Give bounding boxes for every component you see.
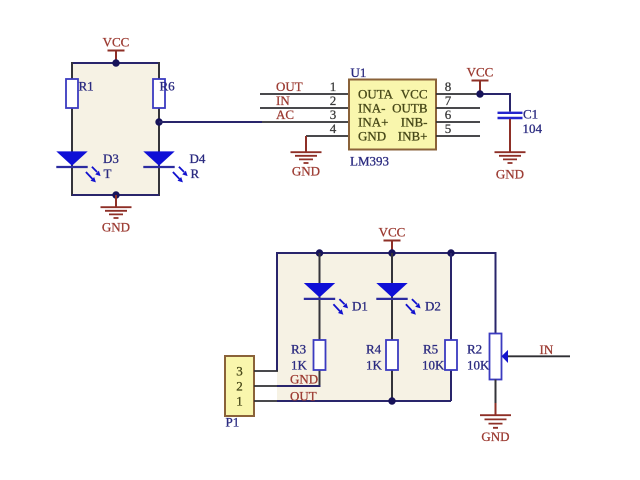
- svg-text:R4: R4: [366, 342, 382, 357]
- svg-text:R6: R6: [160, 79, 176, 94]
- svg-text:3: 3: [236, 364, 243, 379]
- pin 3 of U1: [262, 121, 349, 123]
- pin number 2: [330, 93, 337, 108]
- svg-text:R5: R5: [423, 342, 438, 357]
- wire: top rail of left circuit: [72, 62, 159, 64]
- value 10K: [467, 358, 490, 373]
- resistor R3: [314, 340, 326, 370]
- net label OUT: [290, 389, 317, 404]
- ground symbol (R2): [480, 403, 511, 428]
- svg-text:IN: IN: [540, 342, 554, 357]
- net label IN: [276, 93, 290, 108]
- svg-text:1: 1: [330, 79, 337, 94]
- label R1: [79, 79, 94, 94]
- wire: top rail of bottom circuit: [277, 252, 496, 254]
- svg-text:INB-: INB-: [401, 115, 428, 130]
- pin 3 of P1: [254, 370, 278, 372]
- label GND (R2): [481, 429, 509, 444]
- ground symbol (left circuit): [101, 195, 132, 218]
- svg-text:C1: C1: [523, 107, 538, 122]
- svg-text:INA-: INA-: [358, 101, 385, 116]
- svg-text:R: R: [191, 166, 200, 181]
- potentiometer R2: [490, 334, 509, 380]
- label P1: [226, 415, 240, 430]
- label T: [104, 166, 112, 181]
- pin name OUTA: [358, 87, 394, 102]
- power symbol VCC (bottom circuit): [379, 225, 406, 254]
- connector P1 body: [225, 356, 254, 416]
- junction dot R5 branch: [447, 249, 454, 256]
- LED D4: [143, 151, 187, 182]
- junction dot at bottom rail: [112, 191, 119, 198]
- wire: P1 pin2 to R3 (GND net): [277, 385, 321, 387]
- label U1: [351, 65, 367, 80]
- label D4: [190, 151, 206, 166]
- label GND (C1): [496, 167, 524, 182]
- svg-text:R3: R3: [291, 342, 306, 357]
- label R5: [423, 342, 438, 357]
- svg-text:P1: P1: [226, 415, 240, 430]
- pin name OUTB: [392, 101, 428, 116]
- svg-text:OUTB: OUTB: [392, 101, 428, 116]
- svg-text:INA+: INA+: [358, 115, 388, 130]
- pin 6 of U1: [436, 121, 480, 123]
- svg-text:R2: R2: [467, 342, 482, 357]
- power symbol VCC (at U1 pin 8): [467, 65, 494, 95]
- svg-text:AC: AC: [276, 107, 294, 122]
- svg-text:5: 5: [445, 121, 452, 136]
- pin number 1: [330, 79, 337, 94]
- net label IN: [540, 342, 554, 357]
- label R6: [160, 79, 176, 94]
- pin number 3 (P1): [236, 364, 243, 379]
- svg-text:10K: 10K: [467, 358, 490, 373]
- svg-text:2: 2: [330, 93, 337, 108]
- net label OUT: [276, 79, 303, 94]
- resistor R1: [66, 79, 78, 108]
- wire: R2 bottom lead: [495, 380, 497, 405]
- label C1: [523, 107, 538, 122]
- svg-text:U1: U1: [351, 65, 367, 80]
- svg-text:10K: 10K: [422, 358, 445, 373]
- svg-text:D4: D4: [190, 151, 206, 166]
- pin name INB-: [401, 115, 428, 130]
- label GND (left circuit): [102, 220, 130, 235]
- value 1K: [291, 358, 308, 373]
- svg-text:6: 6: [445, 107, 452, 122]
- svg-text:VCC: VCC: [379, 225, 406, 240]
- svg-text:R1: R1: [79, 79, 94, 94]
- svg-text:D2: D2: [425, 299, 441, 314]
- pin 1 of U1: [260, 93, 349, 95]
- pin 1 of P1: [254, 400, 277, 402]
- svg-text:OUT: OUT: [290, 389, 317, 404]
- label R2: [467, 342, 482, 357]
- svg-text:8: 8: [445, 79, 452, 94]
- pin 5 of U1: [436, 135, 480, 137]
- net label GND: [290, 372, 318, 387]
- svg-text:GND: GND: [496, 167, 524, 182]
- enclosed-loop fill (left LED loop): [72, 63, 159, 195]
- wire: bottom rail (OUT net): [277, 400, 451, 402]
- svg-text:2: 2: [236, 379, 243, 394]
- value 10K: [422, 358, 445, 373]
- pin name VCC: [401, 87, 428, 102]
- svg-text:1: 1: [236, 394, 243, 409]
- wire: AC net from node to U1: [159, 121, 262, 123]
- wire: down to C1: [509, 93, 511, 112]
- resistor R4: [386, 340, 398, 370]
- net label AC: [276, 107, 294, 122]
- junction dot at AC node: [155, 118, 162, 125]
- svg-text:OUT: OUT: [276, 79, 303, 94]
- pin name INA+: [358, 115, 388, 130]
- wire: right vertical branch (R6/D4): [158, 62, 160, 196]
- junction dot D1 branch: [316, 249, 323, 256]
- svg-text:D1: D1: [352, 299, 368, 314]
- label D3: [103, 151, 119, 166]
- LED D3: [56, 151, 100, 182]
- junction dot VCC branch: [388, 249, 395, 256]
- pin 2 of P1: [254, 385, 277, 387]
- svg-text:4: 4: [330, 121, 337, 136]
- svg-text:VCC: VCC: [467, 65, 494, 80]
- enclosed-loop fill (bottom circuit loop): [277, 253, 451, 401]
- ground symbol (U1 pin 4): [291, 136, 322, 163]
- pin 7 of U1: [436, 107, 480, 109]
- svg-text:T: T: [104, 166, 112, 181]
- svg-text:VCC: VCC: [103, 35, 130, 50]
- svg-text:3: 3: [330, 107, 337, 122]
- wire: left vertical branch (R1/D3): [71, 62, 73, 196]
- power symbol VCC (top-left): [103, 35, 130, 64]
- pin 8 of U1: [436, 93, 480, 95]
- svg-text:LM393: LM393: [350, 154, 389, 169]
- svg-text:IN: IN: [276, 93, 290, 108]
- pin number 3: [330, 107, 337, 122]
- capacitor C1: [498, 113, 523, 118]
- pin name INA-: [358, 101, 385, 116]
- pin name GND: [358, 129, 386, 144]
- pin name INB+: [398, 129, 428, 144]
- svg-text:GND: GND: [481, 429, 509, 444]
- wire: D1/R3 vertical branch: [319, 253, 321, 386]
- pin number 4: [330, 121, 337, 136]
- wire: D2/R4 vertical branch: [391, 253, 393, 401]
- svg-text:1K: 1K: [291, 358, 308, 373]
- resistor R5: [445, 340, 457, 370]
- svg-text:GND: GND: [292, 164, 320, 179]
- pin number 6: [445, 107, 452, 122]
- label R3: [291, 342, 306, 357]
- value 1K: [366, 358, 383, 373]
- pin number 2 (P1): [236, 379, 243, 394]
- svg-text:VCC: VCC: [401, 87, 428, 102]
- svg-text:GND: GND: [290, 372, 318, 387]
- svg-text:104: 104: [523, 121, 543, 136]
- pin 2 of U1: [260, 107, 349, 109]
- resistor R6: [153, 79, 165, 108]
- op-amp U1 body: [349, 80, 436, 150]
- wire: pin8 to C1: [480, 93, 510, 95]
- svg-text:OUTA: OUTA: [358, 87, 394, 102]
- svg-text:7: 7: [445, 93, 452, 108]
- junction dot at VCC node: [476, 90, 483, 97]
- LED D2: [376, 283, 420, 315]
- pin 4 of U1: [306, 135, 349, 137]
- value 104: [523, 121, 543, 136]
- pin number 8: [445, 79, 452, 94]
- LED D1: [304, 283, 348, 315]
- svg-text:D3: D3: [103, 151, 119, 166]
- pin number 1 (P1): [236, 394, 243, 409]
- svg-text:GND: GND: [358, 129, 386, 144]
- wire: R5 vertical branch: [450, 253, 452, 401]
- pin number 7: [445, 93, 452, 108]
- label R: [191, 166, 200, 181]
- junction dot at VCC / top rail: [112, 59, 119, 66]
- wire: bottom rail of left circuit: [72, 194, 159, 196]
- label D2: [425, 299, 441, 314]
- label D1: [352, 299, 368, 314]
- label GND (U1 pin 4): [292, 164, 320, 179]
- junction dot bottom rail: [388, 397, 395, 404]
- wire: wiper to IN: [508, 355, 570, 357]
- label R4: [366, 342, 382, 357]
- svg-text:1K: 1K: [366, 358, 383, 373]
- wire: left vertical to P1 pin 3: [276, 252, 278, 371]
- svg-text:INB+: INB+: [398, 129, 428, 144]
- wire: R2 vertical from top rail: [495, 252, 497, 334]
- ground symbol (C1): [495, 119, 526, 163]
- svg-text:GND: GND: [102, 220, 130, 235]
- pin number 5: [445, 121, 452, 136]
- label LM393: [350, 154, 389, 169]
